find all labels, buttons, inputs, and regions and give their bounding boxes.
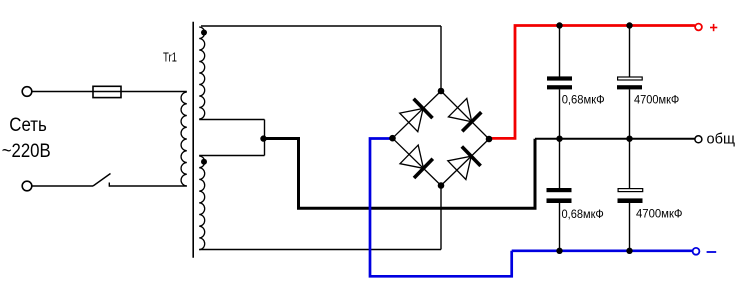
svg-text:~220В: ~220В (2, 140, 51, 162)
svg-text:4700мкФ: 4700мкФ (636, 209, 683, 221)
svg-text:0,68мкФ: 0,68мкФ (562, 209, 605, 221)
svg-text:Tr1: Tr1 (163, 49, 177, 64)
svg-text:0,68мкФ: 0,68мкФ (562, 95, 605, 107)
svg-text:4700мкФ: 4700мкФ (634, 95, 680, 107)
svg-text:общ: общ (707, 131, 736, 148)
svg-text:Сеть: Сеть (9, 114, 47, 136)
